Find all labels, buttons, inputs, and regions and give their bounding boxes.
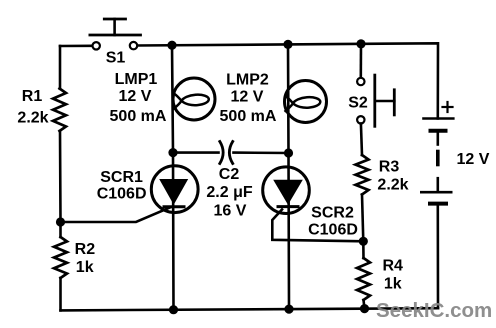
wire left rail (R1 branch) [59, 46, 62, 89]
resistor R4 [357, 258, 370, 300]
wire LMP2 branch top [287, 44, 290, 153]
wire S1 right along top to right rail corner [137, 43, 438, 118]
svg-text:S1: S1 [106, 49, 126, 66]
wire bottom rail [61, 308, 439, 310]
battery BT1 12V [421, 119, 453, 309]
svg-text:S2: S2 [348, 94, 368, 111]
svg-text:LMP1: LMP1 [115, 71, 158, 88]
svg-text:C106D: C106D [308, 222, 358, 239]
node B (R3/R4/gate2) [359, 237, 368, 246]
wire SCR2 gate to junction B [272, 210, 363, 242]
svg-text:R1: R1 [22, 88, 43, 105]
svg-text:SCR1: SCR1 [100, 169, 143, 186]
wire cap left [173, 151, 219, 154]
wire R3 to junction B [362, 195, 363, 242]
wire top-left to S1 [60, 44, 92, 47]
wire R4 to bottom rail [364, 300, 365, 309]
svg-text:R2: R2 [75, 241, 96, 258]
node bottom SCR1 [169, 305, 178, 314]
switch S2 [357, 44, 394, 126]
wire SCR2 anode-cathode branch [287, 153, 290, 309]
svg-text:12 V: 12 V [231, 89, 264, 106]
wire cap right [234, 151, 289, 154]
svg-text:1k: 1k [76, 259, 94, 276]
svg-text:12 V: 12 V [119, 88, 152, 105]
svg-text:2.2k: 2.2k [377, 177, 408, 194]
svg-text:C2: C2 [219, 166, 240, 183]
node bottom R4 [360, 304, 369, 313]
SCR U2 (SCR2) [263, 167, 310, 214]
lamp LMP1 [173, 78, 215, 120]
node C2 left [168, 148, 177, 157]
svg-text:SCR2: SCR2 [311, 205, 354, 222]
resistor R3 [356, 155, 369, 195]
wire SCR1 gate to junction A [61, 208, 171, 223]
node top LMP1 [167, 41, 176, 50]
node A (R1/R2/gate1) [56, 217, 65, 226]
resistor R2 [54, 237, 67, 278]
svg-text:16 V: 16 V [214, 202, 247, 219]
svg-text:C106D: C106D [97, 186, 147, 203]
svg-text:SeekIC.com: SeekIC.com [376, 299, 492, 322]
node top LMP2 [283, 40, 292, 49]
node bottom SCR2 [284, 305, 293, 314]
wire S2 to R3 [361, 124, 362, 156]
battery plus sign [443, 102, 453, 112]
svg-text:LMP2: LMP2 [226, 72, 269, 89]
lamp LMP2 [285, 81, 327, 123]
wire junction B to R4 [362, 241, 365, 258]
svg-text:R3: R3 [379, 159, 400, 176]
svg-text:2.2 μF: 2.2 μF [206, 184, 252, 201]
svg-text:12 V: 12 V [457, 151, 490, 168]
node top S2 [356, 39, 365, 48]
svg-text:R4: R4 [382, 257, 403, 274]
node C2 right [284, 148, 293, 157]
wire LMP1 branch top [172, 45, 173, 152]
resistor R1 [53, 89, 66, 132]
wire R2 to bottom rail [59, 278, 62, 310]
switch S1 [90, 19, 141, 50]
capacitor C2 [220, 142, 233, 164]
wire junction A to R2 [59, 222, 62, 237]
svg-text:1k: 1k [384, 275, 402, 292]
SCR U1 (SCR1) [151, 166, 198, 213]
svg-text:500 mA: 500 mA [110, 108, 167, 125]
svg-text:2.2k: 2.2k [17, 110, 48, 127]
wire SCR1 anode-cathode branch [172, 153, 175, 310]
svg-text:500 mA: 500 mA [220, 108, 277, 125]
wire R1 to junction A [59, 131, 62, 222]
